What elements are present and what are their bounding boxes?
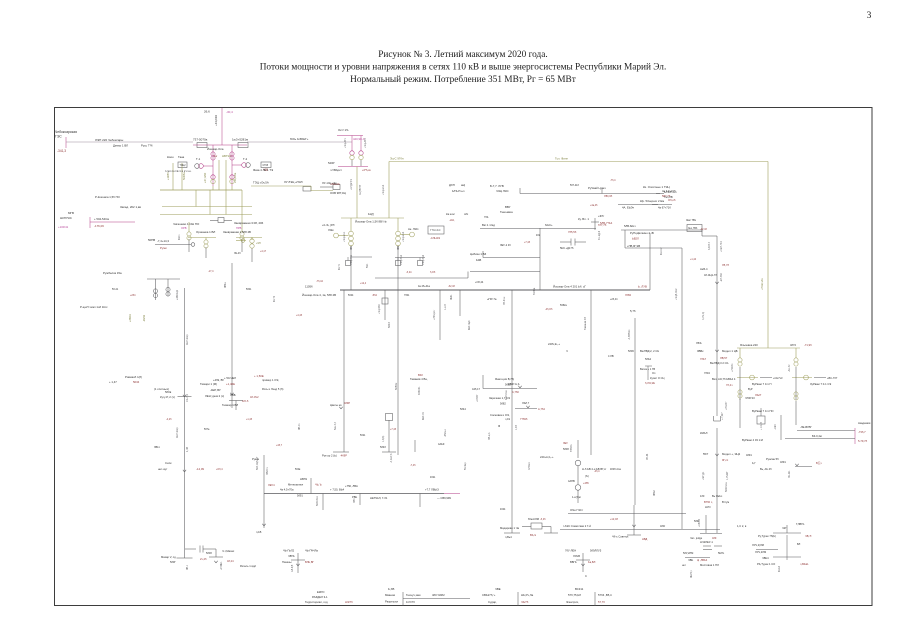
svg-text:7б04: 7б04 — [704, 371, 710, 375]
svg-text:4бСч: 4бСч — [179, 234, 181, 240]
svg-text:+4б9, ВУ: +4б9, ВУ — [213, 378, 224, 382]
svg-text:-ЕР-7б2: -ЕР-7б2 — [720, 273, 723, 282]
svg-text:5ЬГЬ: 5ЬГЬ — [718, 551, 725, 555]
svg-text:Ч2Г: Ч2Г — [782, 526, 787, 530]
svg-text:ф ,ЛВЬ4: ф ,ЛВЬ4 — [697, 558, 708, 562]
svg-text:(1 слитных): (1 слитных) — [154, 387, 169, 391]
svg-text:ООВ 98Т,ЭЦ: ООВ 98Т,ЭЦ — [330, 191, 346, 195]
svg-text:5б-41: 5б-41 — [112, 288, 119, 291]
svg-text:50ПВ: 50ПВ — [148, 238, 155, 242]
svg-text:ЗВВк: ЗВВк — [697, 349, 704, 353]
svg-text:+Ь /Ь, )РЛ: +Ь /Ь, )РЛ — [322, 223, 335, 227]
svg-text:Тана: Тана — [178, 155, 185, 159]
svg-text:4б0 %9б2: 4б0 %9б2 — [432, 593, 445, 597]
svg-text:5бВ4Е: 5бВ4Е — [395, 382, 398, 390]
svg-text:Ку,вет О СЦ: Ку,вет О СЦ — [650, 376, 664, 380]
svg-text:77б9б: 77б9б — [520, 417, 528, 421]
svg-text:Рикмаоб 1(б): Рикмаоб 1(б) — [125, 375, 142, 379]
svg-text:5034: 5034 — [133, 380, 140, 384]
svg-text:НЬ,Рч,Ла: НЬ,Рч,Ла — [521, 593, 534, 597]
svg-text:Л5,7б: Л5,7б — [722, 263, 729, 267]
svg-text:Руэм: Руэм — [160, 246, 167, 250]
svg-text:ЛВ4а: ЛВ4а — [225, 282, 227, 288]
svg-text:ЛЭм: ЛЭм — [328, 228, 334, 232]
svg-text:НКГРЭС: НКГРЭС — [60, 216, 73, 220]
svg-text:5б21: 5б21 — [360, 434, 366, 437]
svg-text:ЛУ ЛЭЦ «ПЭЛ: ЛУ ЛЭЦ «ПЭЛ — [284, 180, 303, 184]
svg-text:+2б,44: +2б,44 — [610, 298, 618, 301]
svg-text:-176,06: -176,06 — [94, 224, 104, 228]
svg-text:ТЭЦ «Ок,5А: ТЭЦ «Ок,5А — [253, 181, 269, 185]
svg-text:ЛУ-б/Lк: ЛУ-б/Lк — [503, 296, 506, 305]
svg-text:ВшПВД 3 2 СЬ: ВшПВД 3 2 СЬ — [710, 361, 729, 365]
svg-text:+ 1,47: + 1,47 — [109, 380, 117, 384]
svg-text:Рось и Лэнд 5 (б): Рось и Лэнд 5 (б) — [262, 387, 284, 391]
svg-text:+Об,44: +Об,44 — [475, 281, 484, 284]
svg-text:Ки. Очистные 1 ТЭЦ: Ки. Очистные 1 ТЭЦ — [643, 185, 671, 189]
svg-text:4ЕР-Эц4: 4ЕР-Эц4 — [469, 320, 471, 330]
svg-text:+ 50-ЧЕЛ: + 50-ЧЕЛ — [224, 376, 236, 380]
svg-text:НЕТ9АЛ, Г-б1: НЕТ9АЛ, Г-б1 — [370, 496, 388, 500]
svg-text:Силк: Силк — [165, 461, 172, 465]
svg-text:Нормальный режим. Потребление: Нормальный режим. Потребление 351 МВт, Р… — [350, 74, 576, 85]
svg-text:НУО: НУО — [705, 505, 711, 509]
svg-text:-4,2б: -4,2б — [166, 418, 172, 421]
svg-text:240Ч,Е,-+: 240Ч,Е,-+ — [548, 342, 560, 346]
svg-text:ЛЬЛ,7: ЛЬЛ,7 — [522, 401, 530, 405]
svg-text:ЛВ2: ЛВ2 — [398, 245, 400, 250]
svg-text:+9П: +9П — [256, 242, 261, 245]
svg-text:ЧВЕ: ЧВЕ — [495, 587, 501, 591]
svg-text:5б01: 5б01 — [246, 288, 252, 291]
svg-text:5бУ,2ЛМ: 5бУ,2ЛМ — [683, 551, 693, 555]
svg-text:-1Ж4: -1Ж4 — [774, 424, 777, 430]
svg-text:ВВГЬ: ВВГЬ — [570, 560, 577, 564]
svg-text:— СВ9,999: — СВ9,999 — [437, 496, 451, 500]
svg-text:ЛВЬ2: ЛВЬ2 — [654, 489, 656, 496]
svg-text:Змс 7Вч: Змс 7Вч — [686, 218, 697, 222]
svg-text:+4б/ЭЦ1: +4б/ЭЦ1 — [176, 289, 179, 300]
svg-text:5бС: 5бС — [367, 263, 369, 268]
svg-text:Мадарово 1 Ча: Мадарово 1 Ча — [500, 526, 519, 530]
svg-text:1,4(б): 1,4(б) — [382, 436, 385, 442]
svg-text:7бЬ7: 7бЬ7 — [700, 357, 707, 361]
svg-text:ЛВ,Об: ЛВ,Об — [604, 194, 613, 198]
svg-text:4А. ЕЬЭч: 4А. ЕЬЭч — [622, 206, 635, 210]
svg-text:5б44: 5б44 — [348, 294, 354, 297]
svg-text:ВуРвані 7 0-1 П: ВуРвані 7 0-1 П — [752, 382, 771, 386]
svg-text:-7,4б: -7,4б — [410, 464, 416, 467]
svg-text:4б72: 4б72 — [790, 343, 797, 347]
svg-text:СЛ-4,В: СЛ-4,В — [292, 564, 294, 572]
svg-text:Об,об: Об,об — [668, 198, 676, 202]
svg-text:Йошкар-Ола: Йошкар-Ола — [207, 147, 224, 151]
svg-text:ЛВ2Сч: ЛВ2Сч — [266, 467, 269, 475]
svg-text:5б4в: 5б4в — [295, 468, 301, 471]
svg-text:Окт! 1Ъ: Окт! 1Ъ — [338, 128, 349, 132]
svg-text:4б-ЭЦ1-7б: 4б-ЭЦ1-7б — [704, 273, 717, 277]
svg-text:Фнал-ция В,7б): Фнал-ция В,7б) — [495, 377, 514, 381]
svg-text:-б,4б: -б,4б — [540, 518, 546, 521]
svg-text:Т-1: Т-1 — [196, 157, 201, 161]
svg-text:+7,4б: +7,4б — [390, 428, 397, 431]
svg-text:ЛЕУ-2 4б: ЛЕУ-2 4б — [500, 244, 511, 247]
svg-text:Йошкар-Ола 4, 1а, 5б8 4В: Йошкар-Ола 4, 1а, 5б8 4В — [302, 293, 336, 297]
svg-text:+12,4: +12,4 — [360, 282, 367, 285]
svg-text:-4,ЛВ5Эч: -4,ЛВ5Эч — [628, 329, 631, 340]
svg-text:ТВВ4Ь: ТВВ4Ь — [570, 444, 573, 452]
svg-text:ам]: ам] — [461, 183, 465, 187]
svg-text:ЛВ1: ЛВ1 — [351, 245, 353, 250]
svg-text:4ЕР-ЭЦ1: 4ЕР-ЭЦ1 — [176, 427, 179, 438]
svg-text:ЬЦТВ!НТ: ЬЦТВ!НТ — [359, 184, 362, 195]
svg-text:+2б4: +2б4 — [130, 294, 136, 297]
svg-text:Вкт.1 1 Ед: Вкт.1 1 Ед — [482, 223, 495, 227]
svg-text:Фаза 4 ЛЬ 1 ТЭ: Фаза 4 ЛЬ 1 ТЭ — [253, 168, 273, 172]
svg-text:+РТ,ов: +РТ,ов — [362, 168, 371, 172]
svg-text:7бУ-ЛЕН: 7бУ-ЛЕН — [565, 549, 576, 553]
svg-text:НВГЭС: НВГЭС — [222, 154, 231, 158]
svg-text:5б7-41б: 5б7-41б — [570, 184, 579, 187]
svg-text:5ЛВ /ЕЬч: 5ЛВ /ЕЬч — [624, 224, 636, 228]
svg-text:5ЛВ-7?Ь4: 5ЛВ-7?Ь4 — [600, 221, 613, 225]
svg-text:ЛЕН урем 2 (з): ЛЕН урем 2 (з) — [205, 394, 224, 398]
svg-text:1,С 2, в: 1,С 2, в — [737, 524, 747, 528]
svg-text:ЧЬ,'Ь: ЧЬ,'Ь — [315, 483, 322, 487]
svg-text:ЧВТЬ: ЧВТЬ — [288, 554, 295, 558]
svg-text:5б-Эц1: 5б-Эц1 — [465, 462, 467, 470]
svg-text:+ЭЦ-5б4: +ЭЦ-5б4 — [378, 304, 381, 314]
svg-text:Ружбеляк 15а: Ружбеляк 15а — [103, 271, 122, 275]
svg-text:4б-УЬ2: 4б-УЬ2 — [250, 395, 259, 399]
svg-text:ЛВ,5Г: ЛВ,5Г — [720, 356, 728, 360]
svg-text:5б4б: 5б4б — [380, 445, 386, 449]
svg-text:б,ЛЭ,ЭЬ: б,ЛЭ,ЭЬ — [645, 381, 655, 385]
svg-text:Ь..ЛУВ: Ь..ЛУВ — [638, 285, 647, 289]
svg-text:Рук-ор 2 (Ь): Рук-ор 2 (Ь) — [322, 454, 337, 458]
svg-text:б,Об: б,Об — [430, 271, 436, 274]
svg-text:ЛУ-1Эц +9а: ЛУ-1Эц +9а — [322, 181, 337, 185]
svg-text:3: 3 — [867, 11, 872, 21]
svg-text:Академия: Академия — [858, 421, 871, 425]
svg-text:4б0/: 4б0/ — [660, 524, 665, 528]
svg-text:+ 504-54См: + 504-54См — [94, 217, 109, 221]
svg-text:-30,4: -30,4 — [226, 110, 233, 114]
svg-text:7б01: 7б01 — [404, 294, 410, 297]
svg-text:+ЭЦ-УЬ0: +ЭЦ-УЬ0 — [422, 254, 425, 265]
svg-text:5Ь6 +Д17б: 5Ь6 +Д17б — [560, 246, 574, 250]
svg-text:ВуРвані 7 0-1 ПО: ВуРвані 7 0-1 ПО — [752, 409, 774, 413]
svg-text:Ру,Турек 7б(Ь): Ру,Турек 7б(Ь) — [758, 534, 776, 538]
svg-text:ВЬУ: ВЬУ — [418, 373, 423, 377]
svg-text:-7б,4: -7б,4 — [610, 179, 616, 182]
svg-text:Чет- judge: Чет- judge — [690, 536, 703, 540]
svg-text:Р-Кокшага 1,5б ПО: Р-Кокшага 1,5б ПО — [95, 195, 121, 199]
svg-text:Метеоаппел: Метеоаппел — [288, 483, 304, 487]
svg-text:9Г,сп: 9Г,сп — [722, 458, 729, 462]
svg-text:Ь4В: Ь4В — [476, 258, 481, 262]
svg-text:ЛВ-1: ЛВ-1 — [187, 564, 189, 570]
svg-text:нет-аут: нет-аут — [158, 467, 168, 471]
svg-text:пример 1 ОЭ,: пример 1 ОЭ, — [262, 378, 279, 382]
svg-text:Вь, АЬ 4б: Вь, АЬ 4б — [760, 467, 772, 471]
svg-text:2ч,4б: 2ч,4б — [200, 557, 207, 561]
svg-text:4ЕР-7б: 4ЕР-7б — [423, 412, 425, 420]
svg-text:Заовражная 1,5б8 4В: Заовражная 1,5б8 4В — [223, 230, 251, 234]
svg-text:ЛЬ41: ЛЬ41 — [451, 294, 453, 300]
svg-text:Ь,Рч,Сj: Ь,Рч,Сj — [702, 312, 705, 320]
svg-text:Обш ГЭСт: Обш ГЭСт — [570, 508, 584, 512]
svg-text:ГЭС: ГЭС — [55, 135, 62, 139]
svg-text:Г,ЛВГЬ: Г,ЛВГЬ — [796, 522, 805, 526]
svg-text:-2б/41: -2б/41 — [143, 314, 146, 322]
svg-text:ЧВЬ4: ЧВЬ4 — [762, 556, 769, 560]
svg-text:+7,4б: +7,4б — [524, 241, 531, 244]
svg-text:540Р: 540Р — [328, 161, 335, 165]
svg-text:Цибикн 1 ВЗ: Цибикн 1 ВЗ — [470, 252, 486, 256]
svg-text:5б7а: 5б7а — [204, 428, 210, 431]
svg-text:Ружía: Ружía — [252, 457, 260, 461]
svg-text:+РЧ4Ь1: +РЧ4Ь1 — [221, 561, 223, 570]
svg-text:+ЭЦ-ЕЬ2: +ЭЦ-ЕЬ2 — [402, 231, 405, 242]
svg-text:ЧВЬ: ЧВЬ — [688, 558, 693, 562]
svg-text:Ь,ХВ: Ь,ХВ — [388, 587, 394, 591]
svg-text:А,7б4: А,7б4 — [538, 407, 545, 411]
svg-text:-341,3: -341,3 — [57, 149, 66, 153]
svg-text:ЛВ-Сч: ЛВ-Сч — [299, 423, 301, 430]
svg-text:ВуРвані 4 03 1чб: ВуРвані 4 03 1чб — [742, 438, 763, 442]
svg-text:+Об,4: +Об,4 — [216, 468, 223, 471]
svg-text:ЛЕУ: ЛЕУ — [563, 442, 568, 445]
svg-text:ЧЬ/7б: ЧЬ/7б — [521, 600, 529, 604]
svg-text:-4ЕР, ВУ: -4ЕР, ВУ — [210, 388, 221, 392]
svg-text:1б0: 1б0 — [700, 494, 705, 498]
svg-text:-5б4: -5б4 — [372, 294, 377, 297]
svg-text:+ЭЦ-АТ2: +ЭЦ-АТ2 — [364, 137, 367, 148]
svg-text:-ЛЕ-ВЛ5Г: -ЛЕ-ВЛ5Г — [800, 425, 812, 429]
svg-text:Регель 1 вд2: Регель 1 вд2 — [240, 564, 256, 568]
svg-text:4б0б 2сш: 4б0б 2сш — [610, 468, 621, 471]
svg-text:Ам5-4: Ам5-4 — [700, 267, 708, 271]
svg-text:+12/55: +12/55 — [167, 172, 170, 180]
svg-text:ВшПВД 2, 2 СЬ: ВшПВД 2, 2 СЬ — [640, 349, 659, 353]
svg-text:ЛВБ: ЛВБ — [230, 393, 236, 397]
svg-text:+ВС-7б7: +ВС-7б7 — [827, 376, 838, 380]
svg-text:+ФГг: +ФГг — [598, 214, 604, 218]
svg-text:Разрешил: Разрешил — [385, 600, 398, 604]
svg-text:Цветы но: Цветы но — [330, 403, 342, 407]
svg-text:ВВУ: ВВУ — [505, 205, 511, 209]
svg-text:+44,6/94: +44,6/94 — [214, 115, 218, 126]
svg-text:55/7: 55/7 — [703, 452, 709, 456]
svg-text:п,1В: п,1В — [256, 530, 262, 534]
svg-text:+ 7,50, ВЬ4: + 7,50, ВЬ4 — [330, 488, 345, 492]
svg-text:ЧП4Г23: ЧП4Г23 — [745, 396, 755, 400]
svg-text:Ка шос: Ка шос — [446, 212, 455, 216]
svg-text:ч,В4аЬ: ч,В4аЬ — [800, 562, 809, 566]
svg-text:ЛЕУ4,1: ЛЕУ4,1 — [691, 570, 693, 578]
svg-text:Вкл, АЭ,7б ЬВЬ4 4: Вкл, АЭ,7б ЬВЬ4 4 — [712, 377, 736, 381]
svg-text:ВЛ: ВЛ — [797, 543, 801, 546]
svg-text:ЛВ-я,Ь: ЛВ-я,Ь — [488, 432, 491, 440]
svg-text:+РЬЖ,1АЬ: +РЬЖ,1АЬ — [761, 278, 764, 290]
svg-text:Ьа,ВЛ: Ьа,ВЛ — [588, 560, 596, 564]
svg-text:РАЗДЕЛ 3-1: РАЗДЕЛ 3-1 — [312, 595, 328, 599]
svg-text:ТЭЦ2: ТЭЦ2 — [180, 165, 187, 167]
svg-text:5б0/4: 5б0/4 — [388, 321, 391, 328]
svg-text:+РЬ44Г: +РЬ44Г — [725, 401, 728, 410]
svg-text:7б5,5б: 7б5,5б — [568, 230, 577, 234]
svg-text:Р-щеП темп 1об 1Ь/с: Р-щеП темп 1об 1Ь/с — [80, 305, 108, 309]
svg-text:ЛЬ-Ж1: ЛЬ-Ж1 — [788, 470, 791, 478]
svg-text:+4ЕР-Г43: +4ЕР-Г43 — [720, 241, 723, 252]
svg-text:1,РчЖТ: 1,РчЖТ — [726, 471, 729, 480]
svg-text:+ЭЦ5,ЭЬ2: +ЭЦ5,ЭЬ2 — [675, 288, 678, 300]
svg-text:1,4В: 1,4В — [186, 447, 189, 452]
svg-text:т.АЭС Советская 2 Г-й: т.АЭС Советская 2 Г-й — [563, 524, 591, 528]
svg-text:Модел +, ЭЦ2: Модел +, ЭЦ2 — [722, 452, 741, 456]
svg-text:Тамаков 4 Ва,: Тамаков 4 Ва, — [410, 377, 428, 381]
svg-text:НВД: НВД — [642, 537, 648, 541]
svg-text:Кугу-Р, 2 (з): Кугу-Р, 2 (з) — [160, 395, 175, 399]
svg-text:ч,19: ч,19 — [505, 417, 511, 421]
svg-text:+СН7ч3: +СН7ч3 — [773, 376, 783, 380]
svg-text:Вттум: Вттум — [722, 500, 729, 504]
svg-text:ЬП4Ел: ЬП4Ел — [528, 462, 531, 470]
svg-text:(Ъ): (Ъ) — [585, 474, 589, 478]
svg-text:Вь УмЬч: Вь УмЬч — [712, 494, 723, 498]
svg-text:+ПВ,9Г,ЭВ: +ПВ,9Г,ЭВ — [627, 244, 640, 248]
svg-text:А,7б0: А,7б0 — [512, 390, 519, 394]
svg-text:Дмитр 1 ВЛ: Дмитр 1 ВЛ — [113, 144, 128, 148]
svg-text:обс: обс — [464, 212, 469, 216]
svg-text:4б91: 4б91 — [746, 453, 752, 457]
svg-text:4б2: 4б2 — [536, 234, 541, 237]
svg-text:+4,4б: +4,4б — [296, 314, 303, 317]
svg-text:+СВ-Г4: +СВ-Г4 — [699, 518, 701, 527]
svg-text:Т-2: Т-2 — [243, 157, 248, 161]
svg-text:+750, ЛВА: +750, ЛВА — [345, 484, 358, 488]
svg-text:ЛВ11: ЛВ11 — [154, 446, 160, 449]
svg-text:ВС311: ВС311 — [575, 587, 584, 591]
svg-text:ЪЬС+: ЪЬС+ — [545, 223, 553, 227]
svg-text:-4б,Об: -4б,Об — [545, 308, 553, 311]
svg-text:Заовражная 3 08, 206: Заовражная 3 08, 206 — [234, 221, 264, 225]
svg-text:-б2,4б: -б2,4б — [448, 285, 455, 288]
svg-text:5,7б: 5,7б — [630, 309, 636, 313]
svg-text:-б5Сь1: -б5Сь1 — [444, 429, 447, 437]
svg-text:Б-7,7. ЛУВ: Б-7,7. ЛУВ — [490, 184, 504, 188]
svg-text:ЧЭЦ ЛЭС: ЧЭЦ ЛЭС — [496, 189, 509, 193]
svg-text:Зеч,7Вh: Зеч,7Вh — [688, 227, 698, 230]
svg-text:+ЭЦ-АТ1: +ЭЦ-АТ1 — [344, 137, 347, 148]
svg-text:Русс 7?б: Русс 7?б — [141, 144, 153, 148]
svg-text:5б0Г: 5б0Г — [170, 560, 176, 564]
svg-text:Тул. Филе: Тул. Филе — [555, 157, 568, 161]
svg-text:Электрич,: Электрич, — [566, 600, 579, 604]
svg-text:+ 13,74: + 13,74 — [760, 421, 763, 430]
svg-text:Тамаков 4В: Тамаков 4В — [584, 317, 587, 330]
svg-text:Йошкар-Ола 1,5б 8В! №: Йошкар-Ола 1,5б 8В! № — [355, 220, 387, 224]
svg-text:Кокш: Кокш — [167, 155, 174, 159]
svg-text:В7б0 ч,: В7б0 ч, — [704, 500, 713, 504]
svg-text:+4,17: +4,17 — [260, 250, 267, 253]
svg-text:КМАЛ: КМАЛ — [700, 431, 708, 435]
svg-text:НЭ/7б: НЭ/7б — [345, 600, 353, 604]
svg-text:ДХП: ДХП — [449, 183, 455, 187]
svg-text:Темкар 1 ВЛ: Темкар 1 ВЛ — [222, 403, 238, 407]
svg-text:+ЖГ,Д1: +ЖГ,Д1 — [702, 471, 705, 480]
svg-text:4б9Р: 4б9Р — [344, 401, 350, 405]
svg-text:Технуч,зам: Технуч,зам — [406, 593, 420, 597]
svg-text:РВЬ: РВЬ — [352, 495, 357, 499]
svg-text:4а 4,5+70а: 4а 4,5+70а — [280, 488, 294, 492]
svg-text:+4а,4б: +4а,4б — [590, 204, 598, 207]
svg-text:4ЕР-ЭЦ1: 4ЕР-ЭЦ1 — [186, 334, 189, 345]
svg-text:-АЬ-7J: -АЬ-7J — [788, 364, 791, 372]
svg-text:Ку. Вл. 1: Ку. Вл. 1 — [578, 217, 589, 221]
svg-text:-71,9б: -71,9б — [804, 343, 812, 347]
svg-text:57б,75,ЬЛ: 57б,75,ЬЛ — [568, 593, 581, 597]
svg-text:4а 67+71б: 4а 67+71б — [658, 206, 671, 210]
svg-text:ЬВ2Л: ЬВ2Л — [632, 237, 639, 241]
svg-text:-73б,7: -73б,7 — [858, 430, 866, 434]
svg-text:Ан. ЛЭС.: Ан. ЛЭС. — [408, 227, 419, 231]
svg-text:Модел 1 ЦБ: Модел 1 ЦБ — [722, 349, 738, 353]
svg-text:+ЭЦ-ЕЬ1: +ЭЦ-ЕЬ1 — [343, 231, 346, 242]
svg-text:Л5/Ь: Л5/Ь — [696, 341, 702, 345]
svg-text:ЧВ,'Л: ЧВ,'Л — [805, 534, 812, 538]
svg-text:ч.УВАркт: ч.УВАркт — [330, 168, 342, 172]
svg-text:+СВ47: +СВ47 — [476, 394, 479, 402]
svg-text:-14,09: -14,09 — [196, 467, 204, 471]
svg-text:Кф. 54черног 2 Ем: Кф. 54черног 2 Ем — [640, 199, 664, 203]
svg-text:5б82: 5б82 — [500, 402, 506, 406]
svg-text:п,Вь4: п,Вь4 — [505, 535, 512, 539]
svg-text:СЬ-7,4: СЬ-7,4 — [186, 394, 189, 402]
svg-text:-4б9Р: -4б9Р — [340, 454, 347, 458]
svg-text:4б21: 4б21 — [430, 476, 436, 479]
svg-text:СТ08: СТ08 — [263, 165, 269, 167]
svg-text:ВуР: ВуР — [748, 388, 753, 391]
svg-text:Судар,: Судар, — [488, 600, 497, 604]
svg-text:44б,17: 44б,17 — [472, 387, 481, 391]
svg-text:«ПР-7а: «ПР-7а — [487, 297, 497, 301]
svg-text:5бЬ2: 5бЬ2 — [645, 357, 652, 361]
svg-text:+12,Об: +12,Об — [610, 518, 619, 521]
svg-text:Ол: Ол — [652, 372, 656, 375]
svg-text:+1,4б: +1,4б — [246, 418, 253, 421]
svg-text:26,6: 26,6 — [204, 110, 210, 114]
svg-text:Территориал, год: Территориал, год — [305, 600, 328, 604]
svg-text:ЛЬ2Г: ЛЬ2Г — [755, 393, 762, 397]
svg-text:НВ47-Ь,Ь: НВ47-Ь,Ь — [508, 382, 520, 386]
svg-text:3,4б7 4: 3,4б7 4 — [708, 241, 711, 250]
svg-text:ЛУВ4: ЛУВ4 — [625, 294, 632, 297]
svg-text:Тюм-авиа: Тюм-авиа — [500, 210, 513, 214]
svg-text:-обл,: -обл, — [449, 218, 455, 222]
svg-text:737-5070а: 737-5070а — [193, 138, 208, 142]
svg-text:ВЛЬ,ВГ: ВЛЬ,ВГ — [305, 560, 315, 564]
svg-text:ТАЛ4а: ТАЛ4а — [533, 287, 536, 295]
svg-text:4б9: 4б9 — [712, 536, 717, 540]
svg-text:1ю3+5281м: 1ю3+5281м — [232, 138, 248, 142]
svg-text:ЕКРО: ЕКРО — [317, 590, 325, 594]
svg-text:Мостовая 1 ПЛ: Мостовая 1 ПЛ — [700, 563, 719, 567]
svg-text:240+А,Ь,-+: 240+А,Ь,-+ — [540, 455, 554, 459]
svg-text:5б4С4Е1: 5б4С4Е1 — [316, 495, 319, 506]
svg-text:4 ЛВ: 4 ЛВ — [608, 354, 614, 358]
